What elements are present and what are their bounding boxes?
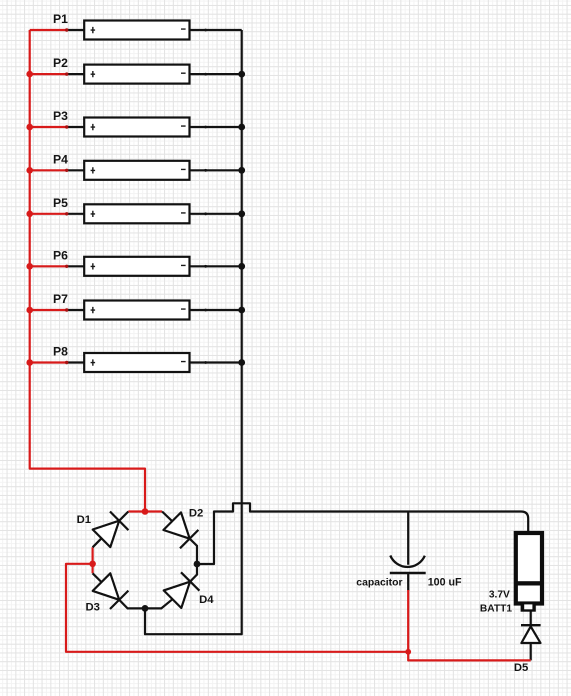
svg-text:D1: D1 [77,514,91,526]
svg-text:P6: P6 [53,248,68,262]
svg-text:100 uF: 100 uF [428,577,462,589]
svg-text:P5: P5 [53,196,68,210]
svg-text:P2: P2 [53,56,68,70]
svg-text:P8: P8 [53,345,68,359]
svg-text:BATT1: BATT1 [480,603,512,614]
svg-text:D5: D5 [514,662,528,674]
svg-text:D2: D2 [189,507,203,519]
svg-text:P7: P7 [53,292,68,306]
svg-text:3.7V: 3.7V [489,589,510,600]
svg-text:D3: D3 [86,601,100,613]
svg-text:capacitor: capacitor [356,578,402,589]
svg-text:D4: D4 [199,594,214,606]
svg-text:P3: P3 [53,109,68,123]
svg-text:P4: P4 [53,152,68,166]
svg-text:P1: P1 [53,12,68,26]
